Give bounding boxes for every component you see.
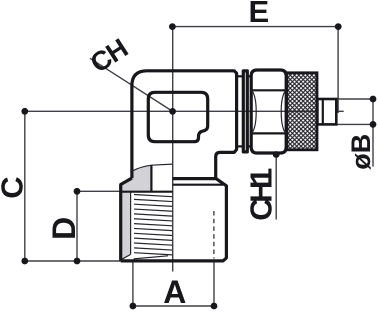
dot oB bottom xyxy=(370,121,377,128)
dot D top xyxy=(74,188,81,195)
dot E left xyxy=(169,23,176,30)
hex middle flat left chamfer arc xyxy=(252,90,257,133)
dot E right xyxy=(335,23,342,30)
gray strip left of threaded section xyxy=(122,192,131,259)
dimension A line xyxy=(133,305,214,307)
svg-text:CH1: CH1 xyxy=(244,168,279,221)
port hex chamfer boundary right half xyxy=(173,184,224,186)
dimension oB vertical line xyxy=(372,99,374,167)
gray chamfer facet of port shoulder xyxy=(121,165,152,192)
hex profile window (CH square) xyxy=(148,92,207,141)
CH leader line xyxy=(90,58,173,111)
dot C bottom xyxy=(21,258,28,265)
neck between collar and hex xyxy=(247,75,251,77)
dimension A right extension xyxy=(213,261,215,307)
dimension E line xyxy=(172,26,338,28)
CH1 leader line xyxy=(275,155,277,220)
vertical centerline xyxy=(172,27,174,272)
collar ring xyxy=(243,71,247,152)
tube stub xyxy=(317,99,336,124)
dimension C bottom extension xyxy=(25,260,121,262)
horizontal centerline xyxy=(25,110,344,112)
dimension oB top extension xyxy=(336,98,373,100)
dimension E right extension xyxy=(337,27,339,113)
hex nut CH1 outline xyxy=(251,70,286,153)
dimension oB bottom extension xyxy=(336,123,373,125)
elbow body outer contour xyxy=(132,71,237,179)
dimension D line xyxy=(76,191,78,261)
svg-text:C: C xyxy=(0,176,29,198)
svg-text:A: A xyxy=(163,274,186,310)
thread lines xyxy=(134,195,173,259)
dimension D top extension xyxy=(77,190,121,192)
port bottom edge xyxy=(121,179,227,261)
dot D bottom xyxy=(74,258,81,265)
port dome arc xyxy=(132,164,173,171)
dot A right xyxy=(211,303,218,310)
dimension A left extension xyxy=(132,262,134,306)
stub divider line xyxy=(322,99,324,124)
dot oB top xyxy=(370,96,377,103)
gray strip bottom chamfer line xyxy=(122,254,131,259)
dot CH1 leader xyxy=(273,151,280,158)
gray strip right edge line xyxy=(130,192,132,255)
dome divider line xyxy=(150,165,152,192)
knurled nut xyxy=(287,73,317,150)
dimension C line xyxy=(24,111,26,261)
svg-text:E: E xyxy=(248,0,269,29)
dot C top xyxy=(21,108,28,115)
dot A left xyxy=(130,303,137,310)
hex flat line upper xyxy=(252,89,285,91)
hex flat line lower xyxy=(252,132,285,134)
dot CH leader xyxy=(169,108,176,115)
neck between body end and collar xyxy=(237,75,244,77)
svg-text:øB: øB xyxy=(346,134,376,170)
hex middle flat right chamfer arc xyxy=(281,90,286,133)
svg-text:D: D xyxy=(46,217,82,240)
thread top edge xyxy=(121,191,173,193)
port left chamfer edge xyxy=(121,178,132,261)
hidden thread dashed line xyxy=(213,211,215,259)
